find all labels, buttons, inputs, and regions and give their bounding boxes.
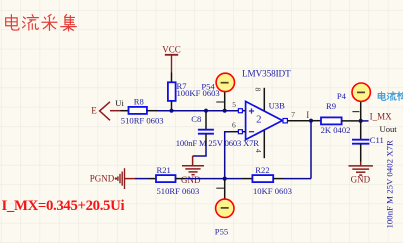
wire stub I_MX	[361, 120, 369, 122]
wire C8 to ground	[205, 134, 207, 145]
resistor R9	[321, 101, 351, 135]
svg-text:PGND: PGND	[90, 174, 115, 184]
wire C11 to ground	[360, 144, 362, 162]
svg-text:4: 4	[254, 149, 263, 153]
wire R9 to output node	[342, 120, 361, 122]
wire node I to R9	[311, 120, 321, 122]
resistor R22	[252, 165, 292, 196]
svg-text:I: I	[306, 110, 309, 120]
test point P54	[201, 73, 234, 110]
port E	[91, 102, 120, 121]
wire R21 to node B	[176, 178, 187, 180]
pin 1 tick P55	[216, 187, 224, 189]
junction P54/node	[223, 109, 227, 113]
svg-text:510RF 0603: 510RF 0603	[121, 115, 164, 125]
junction node I	[309, 119, 313, 123]
svg-text:R8: R8	[134, 96, 144, 106]
svg-text:7: 7	[291, 110, 295, 119]
svg-text:R9: R9	[326, 101, 336, 111]
junction output node	[359, 119, 363, 123]
ground GND (C8)	[182, 156, 204, 175]
wire R22 to feedback riser	[273, 178, 284, 180]
resistor R8	[121, 96, 164, 125]
svg-text:GND: GND	[351, 175, 371, 185]
op-amp U3B	[242, 69, 291, 140]
wire E to R8	[121, 110, 129, 112]
label 电流检 (drawn strokes)	[378, 92, 403, 101]
pin 1 tick P54	[216, 101, 224, 103]
ground GND (C11)	[349, 162, 373, 176]
svg-text:P54: P54	[201, 82, 215, 92]
resistor R7	[168, 81, 220, 101]
svg-text:100nF M 25V 0402 X7R: 100nF M 25V 0402 X7R	[385, 140, 395, 228]
svg-text:C8: C8	[191, 114, 201, 124]
power port VCC	[162, 44, 181, 72]
svg-text:Uout: Uout	[380, 124, 398, 134]
svg-text:P55: P55	[215, 227, 228, 237]
power port PGND	[90, 168, 135, 189]
wire VCC to R7	[171, 73, 173, 83]
capacitor C8	[176, 111, 259, 149]
test point P55	[215, 179, 234, 237]
svg-text:LMV358IDT: LMV358IDT	[242, 69, 291, 79]
svg-text:C11: C11	[370, 135, 384, 145]
pin 8 (V+)	[254, 88, 265, 111]
svg-text:2: 2	[256, 113, 261, 125]
junction R7/node	[169, 109, 173, 113]
svg-text:2K 0402: 2K 0402	[321, 125, 351, 135]
svg-text:I_MX=0.345+20.5Ui: I_MX=0.345+20.5Ui	[2, 198, 125, 214]
wire PGND to R21	[135, 178, 149, 180]
svg-text:R21: R21	[157, 165, 171, 175]
svg-text:510RF 0603: 510RF 0603	[157, 186, 200, 196]
wire R7 to node	[171, 101, 173, 111]
svg-text:8: 8	[254, 88, 263, 92]
title 电流采集 (drawn as strokes)	[6, 15, 77, 31]
pin 1 tick P4	[352, 111, 359, 113]
wire pin6 down to bottom net	[231, 131, 238, 133]
svg-text:U3B: U3B	[269, 101, 286, 111]
svg-text:GND: GND	[181, 175, 201, 185]
svg-text:5: 5	[232, 100, 236, 109]
capacitor C11	[352, 121, 395, 229]
svg-text:I_MX: I_MX	[370, 112, 392, 122]
junction node B	[223, 177, 227, 181]
junction C8/node	[204, 109, 208, 113]
test point P4	[337, 83, 371, 121]
wire node B to R22	[225, 178, 242, 180]
svg-text:10KF 0603: 10KF 0603	[253, 186, 292, 196]
resistor R21	[156, 165, 199, 196]
svg-text:VCC: VCC	[162, 44, 181, 54]
pin 6 terminal	[232, 120, 246, 133]
wire pin7 to node I	[287, 120, 311, 122]
wire node I down to feedback net	[310, 121, 312, 179]
svg-text:6: 6	[232, 120, 236, 129]
pin 7 output terminal	[283, 110, 295, 123]
svg-text:R22: R22	[255, 165, 269, 175]
svg-text:Ui: Ui	[115, 98, 124, 108]
wire R8 to node A	[147, 110, 158, 112]
svg-text:E: E	[91, 106, 97, 116]
pin 5 terminal	[232, 100, 242, 113]
svg-text:P4: P4	[337, 91, 347, 101]
pin 4 (V-)	[254, 131, 264, 159]
